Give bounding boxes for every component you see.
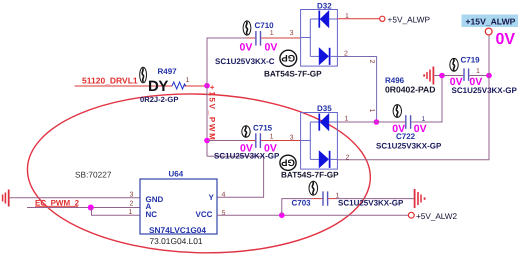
wire GND to U64 pin3 xyxy=(10,197,140,199)
svg-text:5: 5 xyxy=(222,210,226,217)
node dot on +15V vertical xyxy=(486,73,492,79)
svg-text:2: 2 xyxy=(368,60,375,64)
wire Y output loop to +15V_PWM node xyxy=(207,156,264,197)
diode D35 (dual BAT54S) xyxy=(301,113,338,170)
terminal +5V_ALWP xyxy=(380,16,385,21)
stamp near C722 xyxy=(393,105,401,118)
svg-text:SN74LVC1G04: SN74LVC1G04 xyxy=(149,225,206,235)
capacitor C715 xyxy=(256,133,261,148)
stamp near C719 xyxy=(450,58,458,71)
svg-text:2: 2 xyxy=(130,201,134,208)
svg-text:0R0402-PAD: 0R0402-PAD xyxy=(385,85,435,95)
svg-text:D32: D32 xyxy=(317,2,332,11)
wire EC_PWM_2 to U64 pin2 xyxy=(27,207,140,209)
terminal +5V_ALW2 xyxy=(408,212,414,218)
svg-text:3: 3 xyxy=(130,192,134,199)
wire branch to C703 xyxy=(282,199,312,216)
svg-text:1: 1 xyxy=(129,209,133,216)
svg-text:SC1U25V3KX-GP: SC1U25V3KX-GP xyxy=(452,86,518,95)
svg-text:0V: 0V xyxy=(265,42,278,54)
svg-text:VCC: VCC xyxy=(196,210,213,219)
wire +15V_ALWP vertical and to D35 pin2 xyxy=(337,35,489,160)
capacitor C719 xyxy=(464,68,469,80)
resistor R1 R497 zigzag xyxy=(172,82,186,89)
svg-text:2: 2 xyxy=(344,51,348,58)
svg-text:D35: D35 xyxy=(317,104,332,113)
svg-text:Y: Y xyxy=(209,193,215,202)
node dot EC_PWM_2 xyxy=(88,205,94,211)
wire VCC to +5V_ALW2 xyxy=(217,214,408,216)
svg-text:1: 1 xyxy=(476,68,480,75)
wire D32 pin2 down xyxy=(337,57,376,123)
wire branch to U64 pin1 xyxy=(92,208,141,216)
svg-text:51120_DRVL1: 51120_DRVL1 xyxy=(82,75,138,85)
node dot D35 pin1 junction xyxy=(374,119,380,125)
svg-text:+5V_ALW2: +5V_ALW2 xyxy=(416,212,457,221)
svg-text:SB:70227: SB:70227 xyxy=(75,170,112,180)
svg-text:2: 2 xyxy=(346,155,350,162)
svg-text:1: 1 xyxy=(345,116,349,123)
stamp near R497 xyxy=(140,67,147,83)
stamp near C715 xyxy=(242,126,250,138)
svg-text:C722: C722 xyxy=(396,132,416,141)
stamp 96 near D32 xyxy=(280,50,297,66)
red ellipse annotation xyxy=(25,89,372,257)
op-amp U1 U64 inverter box xyxy=(140,179,217,234)
pad symbol right of C703 (red bars) xyxy=(415,189,426,208)
capacitor C722 xyxy=(406,115,411,129)
capacitor C710 xyxy=(256,31,261,46)
svg-text:1: 1 xyxy=(270,30,274,37)
svg-text:0V: 0V xyxy=(414,123,427,135)
wire C719 to +15V vertical xyxy=(469,75,489,77)
stamp near C710 xyxy=(243,21,251,35)
wire C710 to D32 pin 3 xyxy=(261,37,301,39)
svg-text:1: 1 xyxy=(186,77,190,84)
svg-text:+5V_ALWP: +5V_ALWP xyxy=(388,14,431,24)
svg-text:DY: DY xyxy=(148,78,168,95)
svg-text:0V: 0V xyxy=(240,42,253,54)
ground symbol left (EC_PWM) xyxy=(3,190,9,207)
svg-text:C710: C710 xyxy=(255,21,275,30)
wire C715 line from node to D35 pin3 xyxy=(207,140,248,142)
node dot on VCC line xyxy=(279,212,285,218)
svg-text:+15V_ALWP: +15V_ALWP xyxy=(466,17,516,27)
svg-text:0V: 0V xyxy=(496,31,516,48)
wire C703 to pad xyxy=(328,198,336,200)
R496 0402 pad symbol (red bars) xyxy=(423,67,433,85)
wire 51120_DRVL1 (red) xyxy=(75,85,206,87)
svg-text:C703: C703 xyxy=(292,199,312,208)
svg-text:73.01G04.L01: 73.01G04.L01 xyxy=(150,236,203,246)
svg-text:GP: GP xyxy=(280,156,294,167)
wire D35 pin1 to C722 xyxy=(337,121,405,123)
svg-text:SC1U25V3KX-GP: SC1U25V3KX-GP xyxy=(376,142,442,151)
svg-text:3: 3 xyxy=(290,30,294,37)
wire node to C719 xyxy=(442,75,463,77)
wire C722 right up to node xyxy=(411,76,442,123)
svg-text:0R2J-2-GP: 0R2J-2-GP xyxy=(140,95,178,104)
svg-text:1: 1 xyxy=(270,134,274,141)
wire +15V_PWM vertical xyxy=(206,38,208,156)
node dot at R496/C719 xyxy=(439,73,445,79)
svg-text:BAT54S-7F-GP: BAT54S-7F-GP xyxy=(264,70,322,79)
wire pad to node xyxy=(434,75,442,77)
svg-text:C715: C715 xyxy=(253,124,273,133)
node +15V_PWM junction dot xyxy=(204,83,210,89)
node dot at C715 line xyxy=(204,138,210,144)
svg-text:SC1U25V3KX-C: SC1U25V3KX-C xyxy=(215,57,275,66)
svg-text:3: 3 xyxy=(290,135,294,142)
svg-text:GP: GP xyxy=(281,52,295,63)
capacitor C703 xyxy=(323,191,328,205)
svg-text:1: 1 xyxy=(368,109,375,113)
diode D32 (dual BAT54S) xyxy=(301,10,338,67)
svg-text:NC: NC xyxy=(146,210,158,219)
svg-text:BAT54S-7F-GP: BAT54S-7F-GP xyxy=(281,171,339,180)
svg-text:4: 4 xyxy=(222,192,226,199)
svg-text:+15V_PWM: +15V_PWM xyxy=(208,85,217,142)
svg-text:SC1U25V3KX-GP: SC1U25V3KX-GP xyxy=(338,199,404,208)
svg-text:R497: R497 xyxy=(158,67,178,76)
wire D32 pin1 to +5V_ALWP (red) xyxy=(337,18,379,20)
svg-text:U64: U64 xyxy=(169,170,184,179)
terminal +15V_ALWP xyxy=(462,15,519,28)
svg-text:1: 1 xyxy=(345,13,349,20)
stamp near C703 xyxy=(309,181,318,195)
wire to C710 xyxy=(207,37,249,39)
svg-text:SC1U25V3KX-GP: SC1U25V3KX-GP xyxy=(214,152,280,161)
stamp 96 near D35 xyxy=(280,155,296,170)
svg-text:C719: C719 xyxy=(461,56,481,65)
